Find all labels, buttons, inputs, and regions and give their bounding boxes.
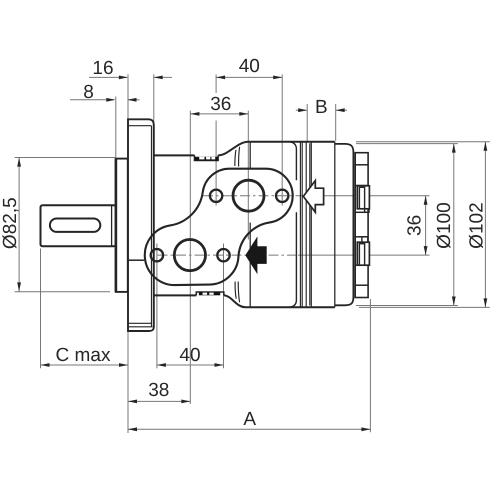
wire bottom-port vertical centerline / 36-top left + 38 extension: [189, 111, 191, 404]
dimension 40 bottom line: [157, 364, 224, 366]
dimension 8 arrow right: [128, 98, 137, 102]
wire 40-bottom right extension: [223, 244, 225, 369]
shaft keyway slot: [50, 219, 100, 232]
dimension 38 arrows: [128, 400, 137, 404]
svg-text:38: 38: [148, 380, 169, 401]
wire bottom-port centerline solid extension to 36-right: [298, 254, 430, 256]
bolt hole bottom-right: [217, 249, 229, 261]
bolt hole top-left: [210, 190, 222, 202]
dimension B arrow left: [298, 108, 307, 112]
front housing seam segment middle: [249, 223, 251, 307]
bottom vent plug tray: [196, 292, 224, 295]
svg-text:40: 40: [179, 345, 200, 366]
wire A right extension: [369, 299, 371, 432]
bottom vent plug black fill: [199, 292, 220, 295]
wire diam82.5 bottom extension: [15, 291, 111, 293]
shaft end seam: [111, 206, 113, 246]
bolt hole top-right: [276, 190, 288, 202]
boss fillet edge top a: [235, 150, 236, 166]
flange bottom chamfer line 2: [128, 326, 153, 328]
wire flange-face extension (C max / 38 / A): [127, 331, 129, 433]
neck face emphasis: [115, 159, 118, 292]
wire top-port centerline solid extension to 36-right: [298, 195, 430, 197]
port flange lobes outline: [145, 169, 293, 285]
boss fillet edge top b: [239, 147, 240, 167]
dimension 40 bottom arrows: [157, 363, 166, 367]
rear column divider r3: [355, 211, 368, 213]
svg-text:Ø102: Ø102: [467, 202, 488, 248]
housing seam line c1: [309, 143, 311, 305]
rear column divider r2: [355, 185, 368, 187]
flow arrow in (black): [246, 238, 266, 272]
rear end cover: [335, 144, 354, 305]
svg-text:8: 8: [83, 82, 94, 103]
boss fillet edge bottom b: [238, 282, 239, 303]
front housing seam segment top: [249, 143, 251, 170]
bottom vent plug white cells: [203, 293, 214, 295]
flange top chamfer line: [128, 125, 151, 127]
wire 40-top left extension through bolt hole: [215, 121, 217, 206]
dimension B line right: [336, 109, 347, 111]
rear cover edge line: [352, 152, 354, 298]
dimension diam100 arrows: [452, 144, 456, 153]
wire diam102 top extension: [356, 141, 490, 143]
wire diam100 top extension: [356, 143, 458, 145]
rear port boss top: [357, 186, 369, 209]
wire diam102 bottom extension: [359, 306, 490, 308]
dimension 8 line right: [128, 99, 139, 101]
motor body top profile: [154, 142, 335, 156]
svg-text:C max: C max: [56, 345, 111, 366]
wire 40-top right extension: [281, 75, 283, 206]
wire diam100 bottom extension: [356, 305, 458, 307]
dimension 16 line left: [89, 76, 127, 78]
wire 40-bottom left extension: [156, 244, 158, 369]
dimension C max arrows: [41, 363, 50, 367]
top vent plug tray: [195, 155, 219, 160]
dimension diam82.5 arrows: [17, 158, 21, 167]
rear column outer strip: [355, 153, 368, 298]
housing seam line b: [305, 142, 307, 307]
port T (bottom) circle: [174, 240, 205, 271]
wire top-port vertical centerline / 36-top right extension: [247, 111, 249, 240]
dimension 38 line: [128, 400, 190, 402]
rear column divider r6: [355, 284, 368, 286]
dimension A arrows: [128, 427, 137, 431]
port P (top) circle: [233, 180, 264, 211]
rear column divider r4: [355, 236, 368, 238]
node bottom-port horizontal centerline: [139, 254, 298, 256]
wire neck-face extension (8): [115, 97, 117, 159]
top vent plug black fill: [195, 157, 218, 161]
dimension diam100 line: [453, 144, 455, 306]
rear port boss top foot: [365, 209, 369, 213]
wire flange-face upper extension (8/16): [127, 74, 129, 118]
flange bottom chamfer line: [128, 322, 152, 324]
housing seam line c2: [310, 142, 312, 307]
rear port boss bottom head: [362, 237, 368, 242]
dimension B arrow right: [336, 108, 345, 112]
node top-port horizontal centerline: [203, 195, 298, 197]
motor body bottom profile: [154, 295, 335, 307]
rear column divider r1: [355, 164, 368, 166]
svg-text:36: 36: [405, 215, 426, 236]
dimension diam82.5 line: [18, 158, 20, 292]
dimension 36 top line: [190, 113, 248, 115]
bolt hole bottom-left: [151, 249, 163, 261]
dimension 36 right line: [425, 196, 427, 255]
neck pilot boss: [116, 159, 128, 292]
dimension 16 arrow left: [119, 76, 128, 80]
housing seam line pair a2: [301, 142, 303, 307]
dimension diam102 arrows: [484, 142, 488, 151]
flow arrow out (white): [303, 181, 323, 213]
dimension 36 right arrows: [424, 196, 428, 205]
shaft body: [41, 205, 116, 246]
svg-text:40: 40: [239, 56, 260, 77]
dimension 40 top arrows: [216, 76, 225, 80]
dimension B line left: [296, 109, 307, 111]
dimension 8 arrow left: [106, 98, 115, 102]
svg-text:A: A: [243, 409, 256, 430]
svg-text:36: 36: [210, 94, 231, 115]
dimension 16 arrow right: [154, 76, 163, 80]
rear port boss bottom: [357, 242, 369, 265]
dimension A line: [128, 428, 370, 430]
wire B left extension: [306, 104, 308, 141]
rear port boss top inner: [359, 187, 364, 209]
rear column divider r5: [355, 264, 368, 266]
housing seam line pair a1: [299, 142, 301, 307]
svg-text:Ø82,5: Ø82,5: [0, 197, 21, 249]
flange plate outline: [128, 119, 154, 331]
wire flange right-face extension (16): [153, 74, 155, 122]
wire B right extension: [335, 104, 337, 141]
svg-text:B: B: [315, 97, 328, 118]
wire shaft-end extension (C max): [40, 249, 42, 369]
boss base edge at flange: [129, 259, 144, 261]
svg-text:Ø100: Ø100: [434, 202, 455, 248]
svg-text:16: 16: [92, 58, 113, 79]
port section shoulder top: [289, 142, 296, 307]
dimension 40 top line: [216, 76, 282, 78]
dimension C max line: [41, 364, 129, 366]
dimension 16 line right: [155, 76, 173, 78]
dimension 8 line left: [70, 99, 114, 101]
wire diam82.5 top extension: [15, 157, 116, 159]
rear port boss bottom inner: [359, 244, 364, 266]
flange inner face line: [151, 126, 153, 327]
dimension diam102 line: [484, 142, 486, 308]
top vent plug white cells: [199, 157, 215, 160]
dimension 36 top arrows: [190, 112, 199, 116]
wire 40-top left extension stub: [215, 75, 217, 94]
housing seam line d (B section end): [334, 142, 336, 307]
boss fillet edge bottom a: [235, 282, 236, 299]
